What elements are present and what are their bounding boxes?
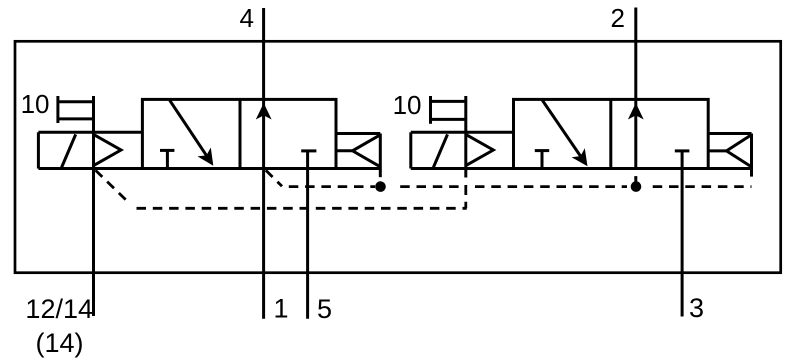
wire port 4 to port 1 line (through valve V1)	[262, 8, 265, 319]
svg-text:12/14: 12/14	[25, 294, 93, 324]
valve V1 flow arrow 4->5 (left chamber diagonal)	[170, 100, 214, 165]
svg-text:10: 10	[21, 89, 50, 119]
label port 12/14	[25, 294, 93, 324]
valve V2 flow arrow diagonal (left chamber)	[542, 100, 587, 166]
label port 4	[240, 3, 254, 33]
svg-text:3: 3	[689, 293, 704, 323]
label port 1	[274, 294, 289, 324]
solenoid M2 coil slash	[433, 134, 447, 167]
valve V2 right pilot box	[708, 134, 751, 177]
junction dot on pilot line under valve V2	[631, 181, 642, 192]
svg-text:1: 1	[274, 294, 289, 324]
svg-text:4: 4	[240, 3, 254, 33]
valve V1 pilot port 10 bracket	[58, 96, 94, 123]
valve V2 pilot vertical line	[464, 96, 467, 178]
label port 10 (valve V1)	[21, 89, 50, 119]
pilot wire: upper dashed horizontal (segment A1)	[289, 185, 375, 188]
pilot wire: upper dashed horizontal (segment B1)	[475, 185, 627, 188]
pilot wire: dashed diagonal from valve V1 solenoid corner	[96, 170, 131, 204]
svg-text:2: 2	[611, 3, 625, 33]
valve V2 flow arrow 1->2 (right chamber)	[628, 103, 644, 120]
solenoid M2 box (valve V2 actuator)	[411, 132, 752, 168]
label port 3	[689, 293, 704, 323]
pilot wire: upper dashed horizontal (segment B2)	[653, 185, 752, 188]
label port 10 (valve V2)	[393, 90, 422, 120]
valve V1 right pilot box	[336, 134, 380, 178]
valve V2 blocked port T (left chamber)	[535, 151, 549, 169]
valve V2 pilot triangle (left, pointing right)	[467, 135, 494, 165]
label port 2	[611, 3, 625, 33]
valve V2 body	[514, 99, 709, 168]
pilot wire: dashed vertical to valve V2 solenoid	[464, 185, 467, 208]
pilot wire: upper dashed horizontal (segment A2)	[400, 185, 464, 188]
valve V2 blocked port T (right chamber, port 3)	[675, 149, 690, 152]
valve V1 flow arrow 1->4 (right chamber)	[256, 103, 272, 120]
solenoid M1 box (valve V1 actuator)	[38, 132, 380, 168]
label port (14)	[36, 328, 84, 358]
pilot wire: dashed diagonal from port 1 of V1	[266, 170, 282, 186]
wire port 2 line into valve V2	[634, 8, 637, 169]
junction dot on pilot line under valve V1	[375, 181, 386, 192]
label port 5	[317, 294, 332, 324]
valve V1 right pilot triangle (pointing left)	[336, 135, 380, 167]
valve V1 blocked port T (right chamber, port 5)	[301, 149, 316, 152]
wire port 5 line	[306, 151, 309, 319]
valve V2 right pilot triangle (pointing left)	[708, 135, 751, 167]
wire stub from port 2 line down to junction	[634, 176, 637, 187]
valve V1 pilot line 12/14 vertical	[92, 96, 95, 316]
solenoid M1 coil slash	[62, 134, 76, 167]
valve V1 blocked port T (left chamber)	[160, 150, 174, 168]
valve V1 pilot triangle (left, pointing right)	[94, 135, 121, 165]
valve V2 pilot port 10 bracket	[431, 96, 466, 124]
wire port 3 line	[681, 151, 684, 317]
svg-text:10: 10	[393, 90, 422, 120]
pilot wire: lower dashed horizontal	[137, 207, 467, 210]
enclosure box (valve manifold outline)	[15, 41, 781, 272]
svg-text:(14): (14)	[36, 328, 84, 358]
svg-text:5: 5	[317, 294, 332, 324]
valve V1 body	[142, 99, 336, 168]
